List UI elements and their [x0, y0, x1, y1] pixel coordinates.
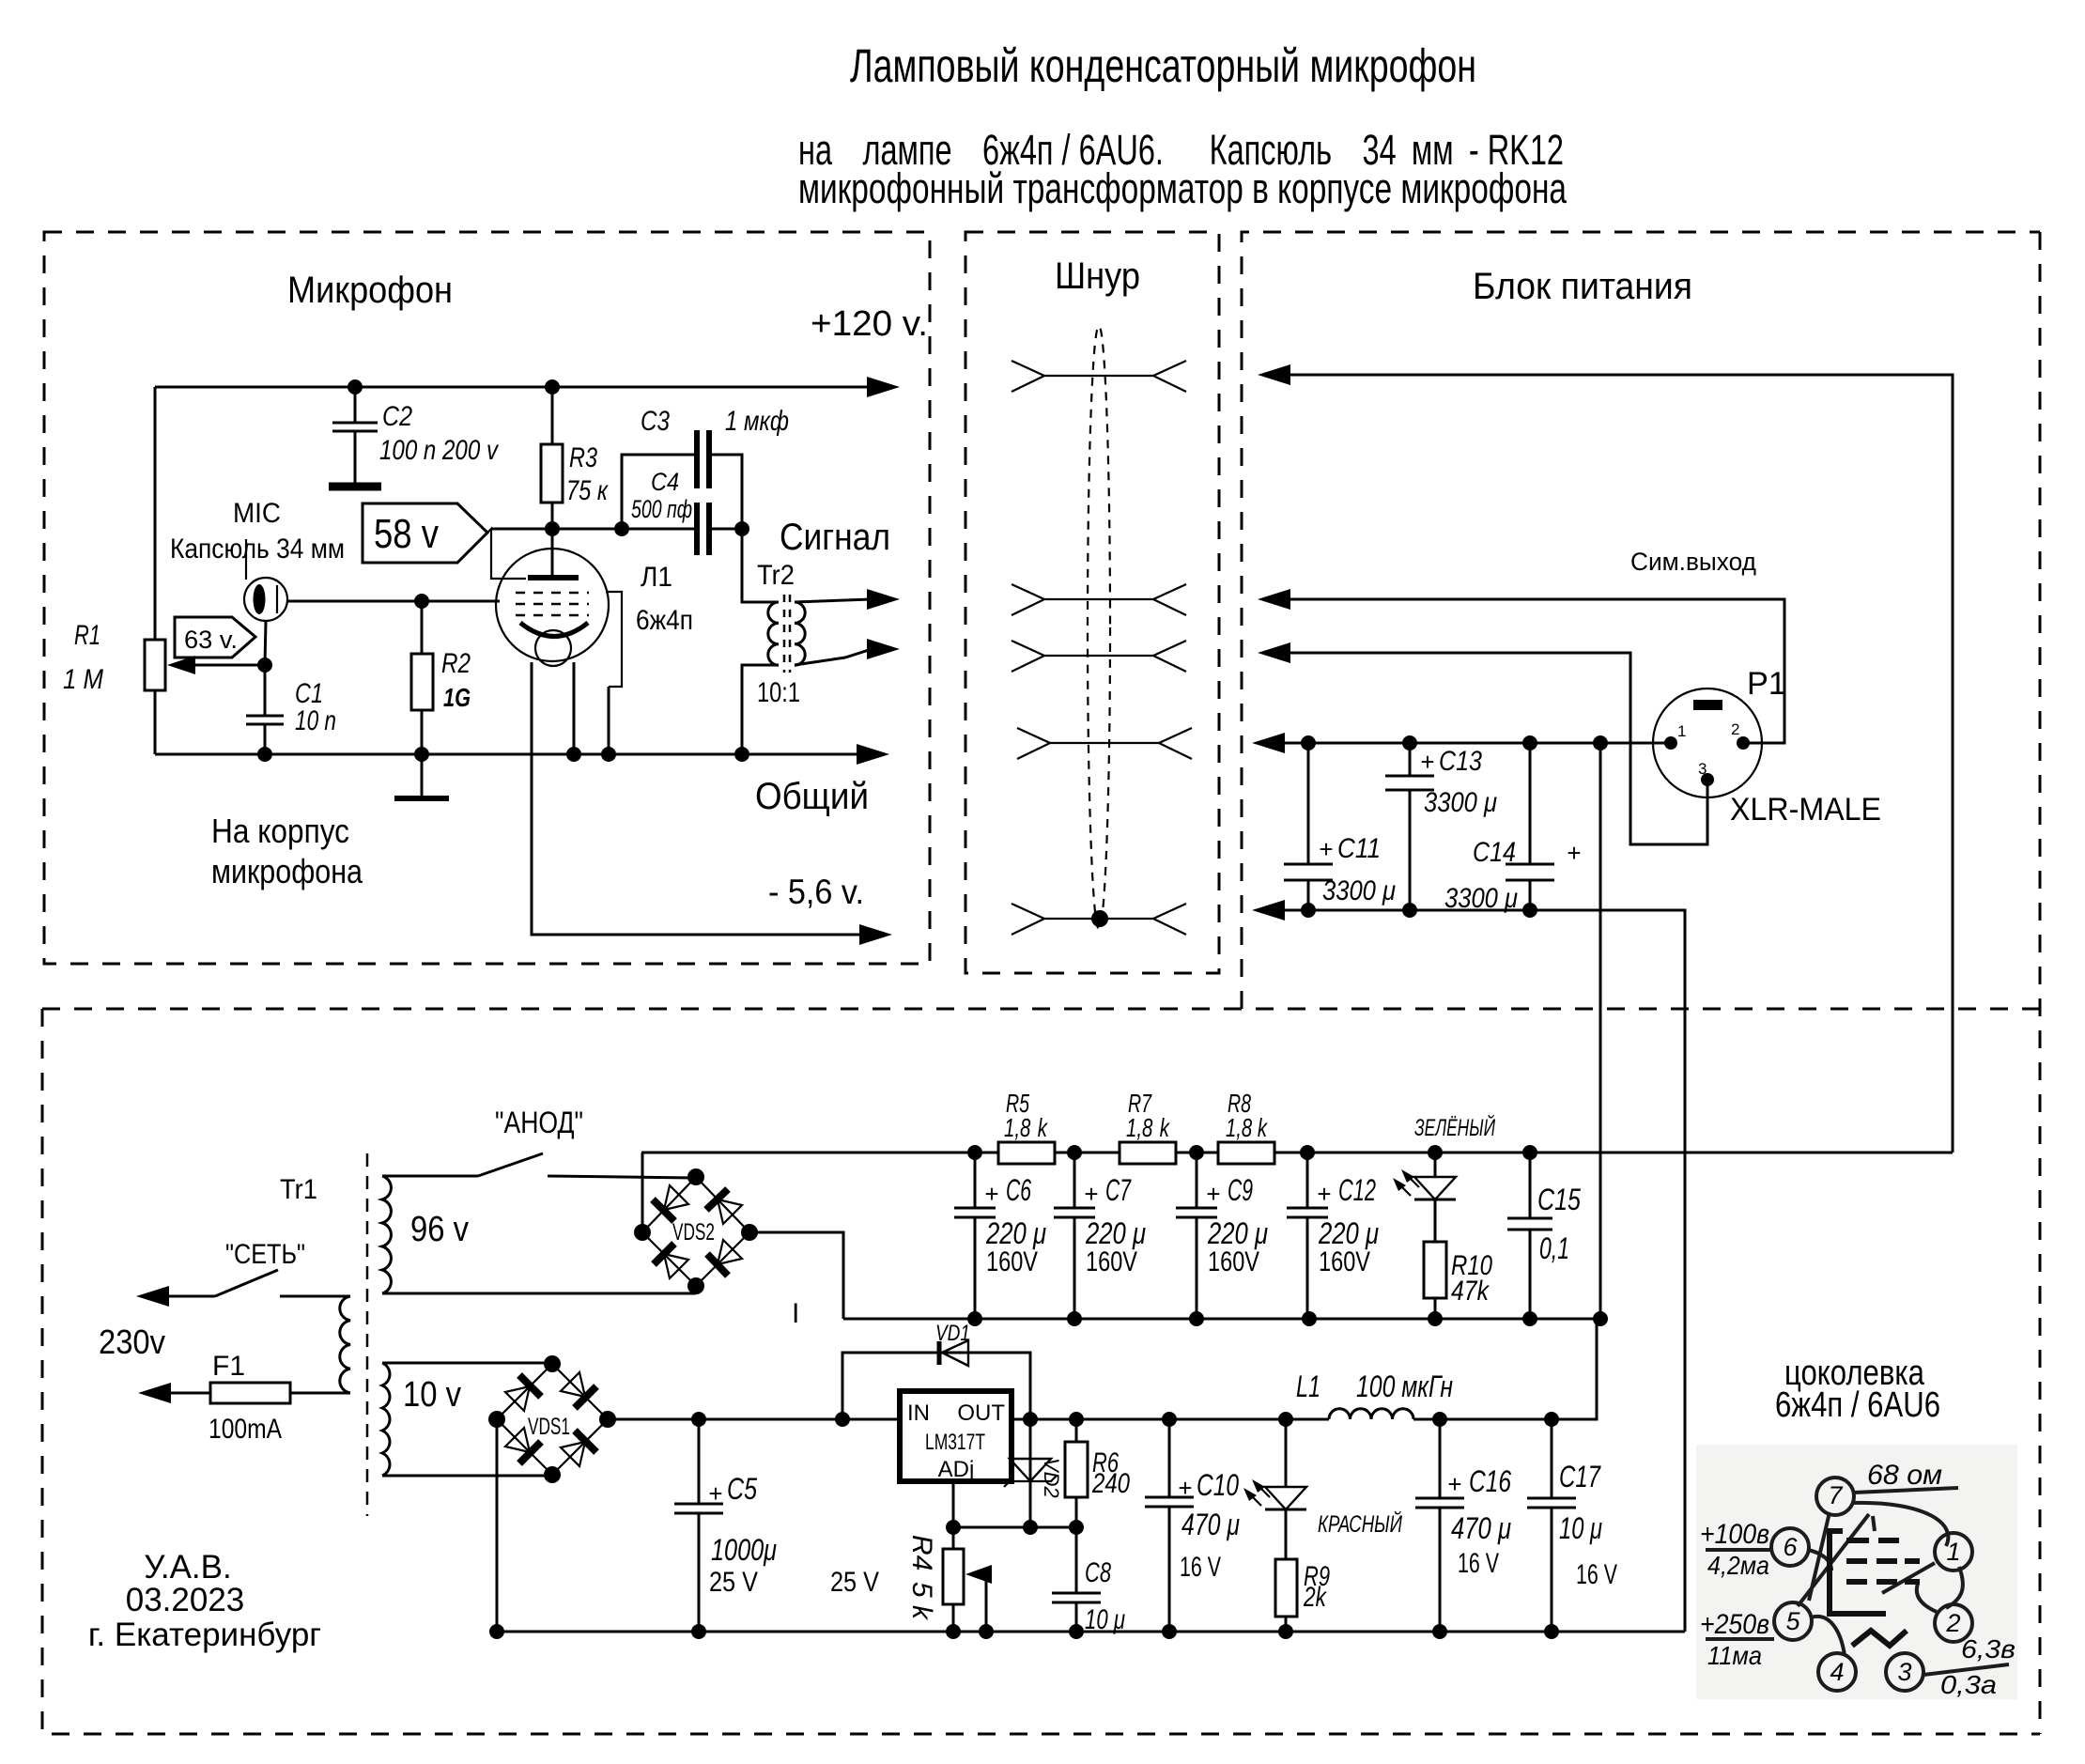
svg-text:F1: F1: [212, 1351, 245, 1382]
svg-text:OUT: OUT: [957, 1400, 1005, 1426]
svg-text:R2: R2: [441, 648, 471, 679]
svg-text:Микрофон: Микрофон: [287, 270, 453, 311]
svg-text:ЗЕЛЁНЫЙ: ЗЕЛЁНЫЙ: [1414, 1113, 1495, 1141]
svg-text:500 пф: 500 пф: [631, 495, 692, 523]
svg-text:160V: 160V: [1086, 1246, 1137, 1277]
svg-text:+120 v.: +120 v.: [811, 304, 928, 344]
svg-text:220 μ: 220 μ: [1207, 1216, 1268, 1250]
svg-text:1: 1: [1946, 1538, 1960, 1566]
svg-text:100 n 200 v: 100 n 200 v: [379, 435, 500, 466]
svg-text:7: 7: [1828, 1481, 1843, 1509]
svg-text:Tr1: Tr1: [280, 1174, 317, 1205]
svg-text:2: 2: [1731, 720, 1739, 738]
svg-text:0,3а: 0,3а: [1940, 1670, 1997, 1699]
svg-text:5: 5: [1785, 1607, 1800, 1635]
svg-text:+: +: [1420, 748, 1434, 776]
svg-text:4: 4: [1830, 1658, 1844, 1686]
svg-text:C8: C8: [1085, 1557, 1111, 1588]
svg-text:Ламповый конденсаторный микроф: Ламповый конденсаторный микрофон: [850, 39, 1476, 92]
svg-text:25 V: 25 V: [709, 1567, 758, 1598]
svg-text:1,8 k: 1,8 k: [1226, 1113, 1268, 1142]
svg-text:VDS2: VDS2: [672, 1219, 715, 1246]
svg-text:C2: C2: [382, 401, 412, 432]
svg-text:160V: 160V: [986, 1246, 1038, 1277]
svg-text:I: I: [792, 1298, 799, 1329]
svg-text:220 μ: 220 μ: [985, 1216, 1046, 1250]
svg-text:IN: IN: [907, 1400, 930, 1426]
svg-text:5 k: 5 k: [906, 1582, 937, 1621]
svg-text:+: +: [1319, 835, 1333, 863]
svg-text:микрофона: микрофона: [211, 852, 363, 890]
svg-text:C7: C7: [1105, 1173, 1132, 1207]
svg-text:6ж4п: 6ж4п: [636, 605, 693, 636]
svg-text:VD2: VD2: [1040, 1458, 1063, 1498]
svg-text:1 мкф: 1 мкф: [725, 406, 789, 437]
svg-text:L1: L1: [1296, 1369, 1320, 1403]
svg-text:+250в: +250в: [1700, 1609, 1769, 1640]
svg-text:+: +: [1206, 1180, 1220, 1208]
svg-text:R3: R3: [569, 442, 597, 473]
svg-text:C16: C16: [1469, 1464, 1511, 1498]
svg-text:+: +: [708, 1479, 722, 1508]
svg-text:75 к: 75 к: [566, 475, 609, 506]
svg-text:160V: 160V: [1319, 1246, 1370, 1277]
svg-text:КРАСНЫЙ: КРАСНЫЙ: [1318, 1509, 1402, 1538]
svg-text:C10: C10: [1197, 1468, 1239, 1502]
svg-text:3300 μ: 3300 μ: [1444, 883, 1518, 914]
svg-text:C4: C4: [651, 468, 679, 496]
svg-text:6,3в: 6,3в: [1961, 1634, 2015, 1663]
svg-text:10 v: 10 v: [403, 1375, 461, 1415]
svg-text:+: +: [1317, 1180, 1331, 1208]
svg-text:470 μ: 470 μ: [1181, 1508, 1240, 1541]
svg-text:На корпус: На корпус: [211, 812, 349, 850]
svg-text:ADj: ADj: [938, 1457, 975, 1482]
svg-text:XLR-MALE: XLR-MALE: [1730, 792, 1881, 828]
svg-text:LM317T: LM317T: [925, 1430, 985, 1455]
svg-text:03.2023: 03.2023: [126, 1582, 245, 1618]
svg-text:1,8 k: 1,8 k: [1126, 1113, 1170, 1142]
svg-text:C14: C14: [1473, 837, 1516, 868]
svg-text:1G: 1G: [443, 683, 471, 712]
svg-text:10 μ: 10 μ: [1085, 1604, 1125, 1635]
svg-text:3: 3: [1897, 1658, 1911, 1686]
svg-text:+: +: [1567, 839, 1581, 867]
svg-text:+: +: [1178, 1474, 1192, 1502]
svg-text:У.А.В.: У.А.В.: [144, 1549, 231, 1586]
svg-text:микрофонный трансформатор в ко: микрофонный трансформатор в корпусе микр…: [798, 164, 1568, 212]
svg-text:Шнур: Шнур: [1055, 255, 1140, 297]
svg-text:0,1: 0,1: [1539, 1231, 1569, 1265]
svg-text:P1: P1: [1747, 666, 1786, 702]
svg-text:3300 μ: 3300 μ: [1424, 787, 1497, 818]
svg-text:3300 μ: 3300 μ: [1322, 875, 1396, 906]
svg-text:47k: 47k: [1451, 1276, 1490, 1307]
svg-text:MIC: MIC: [233, 498, 281, 529]
svg-text:1000μ: 1000μ: [711, 1533, 777, 1567]
svg-text:3: 3: [1698, 760, 1707, 778]
svg-text:220 μ: 220 μ: [1318, 1216, 1379, 1250]
svg-text:470 μ: 470 μ: [1451, 1511, 1511, 1545]
svg-text:25 V: 25 V: [830, 1567, 879, 1598]
svg-text:6ж4п / 6AU6: 6ж4п / 6AU6: [1775, 1385, 1940, 1425]
svg-text:R1: R1: [74, 620, 100, 651]
svg-text:10:1: 10:1: [757, 677, 800, 708]
svg-text:Tr2: Tr2: [757, 560, 795, 591]
svg-text:C3: C3: [641, 406, 670, 437]
svg-text:16 V: 16 V: [1180, 1552, 1221, 1583]
svg-text:100mA: 100mA: [208, 1414, 282, 1445]
svg-text:C15: C15: [1537, 1183, 1581, 1216]
svg-text:63 v.: 63 v.: [184, 626, 238, 654]
svg-text:230v: 230v: [99, 1323, 165, 1361]
svg-text:C9: C9: [1228, 1173, 1253, 1207]
svg-text:C12: C12: [1338, 1173, 1376, 1207]
svg-text:Сим.выход: Сим.выход: [1630, 548, 1756, 576]
svg-text:Л1: Л1: [641, 562, 672, 593]
svg-text:68 ом: 68 ом: [1867, 1460, 1942, 1491]
svg-text:1: 1: [1677, 722, 1686, 740]
svg-text:16 V: 16 V: [1576, 1559, 1617, 1590]
svg-text:C11: C11: [1337, 833, 1381, 864]
svg-text:+100в: +100в: [1700, 1519, 1769, 1550]
svg-text:6: 6: [1783, 1533, 1798, 1561]
svg-text:58 v: 58 v: [374, 511, 439, 557]
svg-text:4,2ма: 4,2ма: [1707, 1551, 1769, 1580]
svg-text:1,8 k: 1,8 k: [1004, 1113, 1048, 1142]
svg-text:+: +: [1447, 1470, 1461, 1498]
svg-text:16 V: 16 V: [1458, 1548, 1499, 1579]
svg-text:2: 2: [1945, 1609, 1960, 1637]
svg-text:г. Екатеринбург: г. Екатеринбург: [88, 1617, 321, 1653]
svg-text:Общий: Общий: [755, 776, 869, 817]
svg-text:160V: 160V: [1208, 1246, 1259, 1277]
svg-text:11ма: 11ма: [1707, 1641, 1762, 1670]
svg-text:Капсюль 34 мм: Капсюль 34 мм: [170, 534, 345, 565]
svg-text:2k: 2k: [1303, 1582, 1327, 1613]
svg-text:240: 240: [1091, 1468, 1130, 1499]
svg-text:+: +: [1084, 1180, 1098, 1208]
svg-text:+: +: [984, 1180, 998, 1208]
svg-text:"АНОД": "АНОД": [495, 1106, 583, 1139]
svg-text:10 n: 10 n: [295, 705, 336, 736]
svg-text:VD1: VD1: [935, 1321, 970, 1346]
svg-text:C17: C17: [1559, 1460, 1601, 1493]
svg-text:100 мкГн: 100 мкГн: [1356, 1369, 1453, 1403]
svg-text:"СЕТЬ": "СЕТЬ": [225, 1239, 305, 1270]
svg-text:1 M: 1 M: [63, 664, 103, 695]
svg-text:C5: C5: [727, 1472, 757, 1506]
svg-text:96 v: 96 v: [410, 1210, 469, 1249]
svg-text:Сигнал: Сигнал: [780, 517, 890, 558]
svg-text:- 5,6 v.: - 5,6 v.: [768, 873, 864, 911]
svg-text:Блок питания: Блок питания: [1473, 266, 1692, 307]
svg-text:220 μ: 220 μ: [1085, 1216, 1146, 1250]
svg-text:R4: R4: [906, 1535, 937, 1571]
svg-text:C6: C6: [1006, 1173, 1031, 1207]
svg-text:VDS1: VDS1: [528, 1414, 570, 1440]
svg-text:C13: C13: [1439, 746, 1482, 777]
svg-text:10 μ: 10 μ: [1559, 1511, 1602, 1545]
